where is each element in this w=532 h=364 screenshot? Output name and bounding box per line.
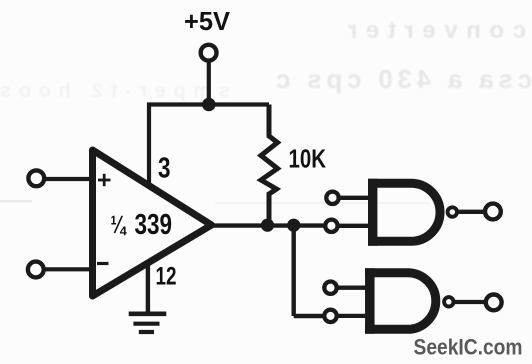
op-amp U1 (1/4 LM339) triangle [93, 150, 212, 296]
svg-text:10K: 10K [289, 144, 327, 174]
wire: stub to bottom gate lower input [339, 314, 367, 318]
U2 output inversion bubble [448, 207, 457, 216]
wire: pin 12 ground wire [146, 261, 150, 312]
terminal: bottom gate lower input circle [324, 310, 336, 322]
svg-text:¼: ¼ [111, 211, 128, 239]
U3 output inversion bubble [444, 297, 453, 306]
faint scan streak [0, 200, 32, 203]
U1 + input marking [98, 174, 111, 186]
wire: top input wire to + input [44, 177, 95, 181]
wire: bottom input wire to - input [44, 267, 95, 271]
wire: U2 output [459, 210, 485, 214]
svg-text:3: 3 [158, 153, 171, 185]
terminal: U3 output circle [486, 295, 502, 311]
svg-text:339: 339 [135, 209, 173, 241]
wire: top supply rail [147, 102, 269, 106]
wire: stub to bottom gate upper input [339, 286, 367, 290]
terminal: +5V circle [201, 45, 217, 61]
wire: comparator output to gates [208, 223, 324, 227]
NAND gate U3 body (bottom) [365, 268, 436, 334]
wire: U3 output [455, 300, 485, 304]
terminal: bottom gate upper input circle [324, 282, 336, 294]
faint bleed-through text line 2 (mirrored) [276, 64, 532, 94]
svg-text:12: 12 [156, 263, 177, 291]
wire: pin 3 supply wire from top rail to triangle [147, 103, 151, 187]
U1 - input marking [97, 262, 109, 265]
svg-text:+5V: +5V [184, 6, 231, 36]
wire: branch to bottom gate lower input [294, 314, 323, 318]
wire: stub to top gate upper input [341, 196, 370, 200]
terminal: - input circle [28, 262, 44, 278]
terminal: top gate upper input circle [326, 192, 338, 204]
ground [129, 314, 167, 332]
terminal: + input circle [28, 170, 44, 186]
junction: branch node [287, 219, 300, 232]
wire: stub to top gate lower input [340, 224, 370, 228]
terminal: U2 output circle [485, 204, 501, 220]
junction on supply rail [202, 98, 216, 112]
faint bleed-through text line 1 (mirrored) [348, 17, 526, 44]
svg-text:SeekIC.com: SeekIC.com [414, 335, 523, 360]
resistor R1 10K [261, 105, 278, 226]
svg-text:csa a 430 cps c: csa a 430 cps c [276, 64, 532, 94]
NAND gate U2 body (top) [368, 179, 440, 246]
faint bleed-through text line 3 (mirrored, left) [0, 80, 230, 102]
junction: resistor bottom node [261, 219, 274, 232]
wire: vertical branch down [292, 226, 296, 316]
wire: +5V stem [207, 60, 211, 105]
terminal: top gate lower input circle [325, 220, 337, 232]
